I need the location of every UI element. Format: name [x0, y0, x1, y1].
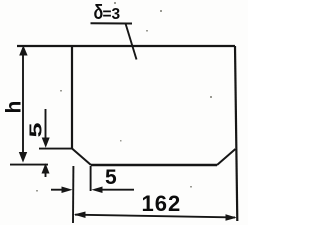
dimension h : vertical line	[22, 48, 24, 160]
svg-text:5: 5	[26, 122, 45, 137]
dimension 5 (vertical) : lower shaft	[45, 166, 47, 177]
dimension 5 (vertical) : up arrowhead	[42, 163, 50, 173]
dimension 5 (vertical) : upper shaft	[45, 109, 47, 138]
svg-text:h: h	[3, 101, 26, 114]
dimension 5 (horizontal) : right segment	[101, 189, 134, 191]
left extension line below plate	[72, 166, 74, 223]
chamfer reference line at y=148	[39, 148, 72, 150]
dimension 162 : left arrowhead	[74, 212, 86, 219]
bottom reference line (left of plate, level of bottom edge)	[10, 164, 48, 166]
dimension 5 (horizontal) : left-pointing arrowhead	[91, 187, 102, 194]
scan speckles	[36, 2, 212, 192]
dimension h : bottom arrowhead	[19, 152, 27, 163]
leader underline	[91, 22, 133, 24]
chamfer-end extension line below plate	[90, 166, 92, 191]
svg-text:=3: =3	[103, 6, 121, 23]
dimension 5 (horizontal) : right-pointing arrowhead	[62, 187, 73, 194]
plate outline (sheet part, top edge with left extension)	[17, 46, 237, 221]
dimension 5 (vertical) : down arrowhead	[42, 138, 50, 148]
svg-text:162: 162	[142, 191, 182, 216]
dimension 162 : line	[75, 215, 235, 218]
dimension 162 : right arrowhead	[226, 214, 237, 221]
leader line into plate	[126, 24, 137, 60]
dimension 5 (horizontal) : left segment	[51, 189, 64, 191]
dimension h : top arrowhead	[19, 45, 27, 55]
svg-text:5: 5	[105, 166, 117, 189]
